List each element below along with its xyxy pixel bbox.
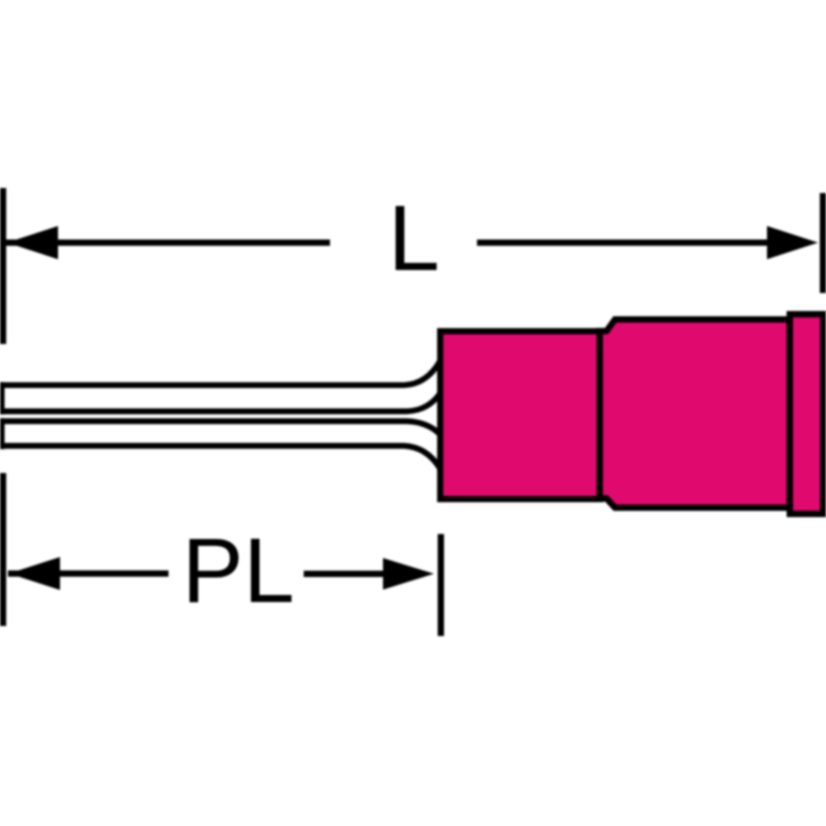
wire: pin strip B top edge (0, 421, 440, 434)
terminal end flange (790, 314, 823, 514)
terminal body middle section (600, 319, 790, 507)
wire: pin strip A left end cap (0, 382, 5, 414)
PL dimension right arrow shaft (304, 571, 386, 577)
wire: pin strip A bottom edge (0, 394, 440, 412)
PL dimension right arrowhead (383, 558, 434, 590)
PL dimension left arrowhead (9, 557, 60, 590)
L dimension left extension line (0, 188, 6, 344)
PL dimension left arrow shaft (8, 570, 169, 576)
L dimension left arrow shaft (6, 240, 330, 246)
L dimension right extension line (820, 193, 826, 293)
svg-text:PL: PL (182, 520, 295, 622)
wire: pin strip B bottom edge (0, 446, 440, 469)
insulation sleeve (red barrel) (440, 331, 600, 499)
svg-text:L: L (388, 186, 440, 290)
wire: pin strip A top edge (0, 361, 440, 385)
PL dimension left extension line (0, 473, 6, 626)
L dimension right arrow shaft (477, 240, 769, 246)
L dimension right arrowhead (767, 226, 818, 259)
L dimension left arrowhead (7, 226, 58, 259)
wire: pin strip B left end cap (0, 418, 5, 449)
PL dimension right extension line (438, 534, 444, 636)
